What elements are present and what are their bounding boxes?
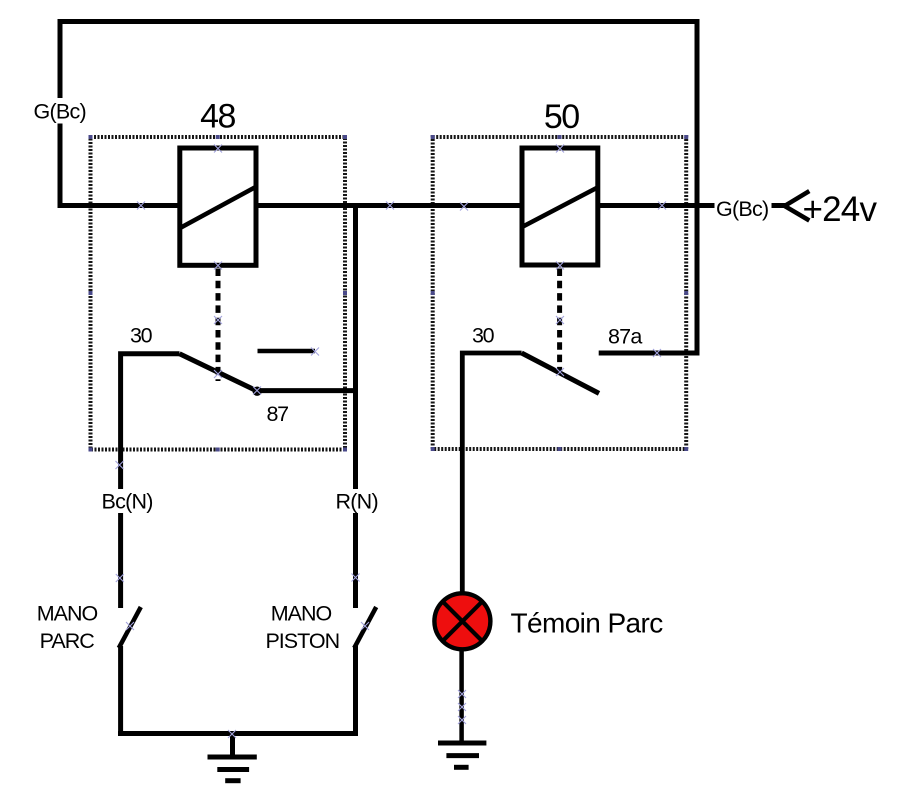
label G(Bc) left bbox=[30, 98, 88, 124]
svg-text:30: 30 bbox=[130, 324, 153, 348]
wire: lamp to ground bbox=[459, 650, 464, 743]
svg-text:R(N): R(N) bbox=[336, 490, 378, 514]
label G(Bc) right bbox=[715, 195, 772, 221]
svg-text:Témoin Parc: Témoin Parc bbox=[511, 608, 664, 639]
ground stub below bottom bus bbox=[230, 734, 235, 758]
svg-text:MANO: MANO bbox=[271, 602, 332, 626]
ground symbol (center) bbox=[208, 757, 257, 781]
wire: relay 50 terminal 87a to right drop bbox=[599, 351, 700, 356]
wire: MANO PISTON lower leg bbox=[353, 646, 358, 736]
svg-text:PISTON: PISTON bbox=[265, 629, 339, 653]
ground symbol (right, below lamp) bbox=[438, 743, 486, 767]
dashed armature link of relay 50 bbox=[557, 269, 562, 379]
relay 50 terminal 30 wire and drop to lamp bbox=[462, 353, 521, 594]
label Bc(N) bbox=[99, 489, 156, 514]
MANO PARC switch arm bbox=[119, 607, 141, 648]
wire: relay 48 terminal 87 to R(N) wire bbox=[257, 388, 358, 393]
svg-text:PARC: PARC bbox=[40, 629, 95, 653]
relay 48 terminal 30 wire and Bc(N) drop bbox=[121, 354, 180, 608]
label R(N) bbox=[331, 489, 379, 514]
relay 50 dotted enclosure bbox=[433, 137, 687, 449]
wire R(N): junction on bus down to MANO PISTON switch bbox=[353, 206, 358, 609]
relay 48 coil U1 bbox=[180, 148, 257, 265]
svg-text:G(Bc): G(Bc) bbox=[34, 100, 86, 124]
wire: main horizontal bus at relay coil level bbox=[58, 203, 786, 208]
relay 48 unused 87a contact stub bbox=[258, 349, 316, 354]
wire: MANO PARC lower leg bbox=[118, 646, 123, 736]
wire: left branch up, top bus, right drop to 87a bbox=[60, 22, 697, 356]
relay 50 coil U2 bbox=[522, 148, 598, 265]
MANO PISTON switch arm bbox=[354, 607, 376, 648]
svg-text:48: 48 bbox=[200, 98, 235, 136]
svg-text:+24v: +24v bbox=[803, 190, 878, 229]
svg-text:30: 30 bbox=[472, 324, 495, 348]
svg-text:G(Bc): G(Bc) bbox=[716, 197, 768, 221]
svg-text:50: 50 bbox=[544, 98, 579, 136]
dashed armature link of relay 48 bbox=[216, 269, 221, 382]
wire: bottom return bus bbox=[118, 731, 358, 736]
svg-text:MANO: MANO bbox=[37, 602, 98, 626]
selection anchor marks (editor artifacts) bbox=[116, 145, 667, 739]
relay 48 switch arm (closed to 87) bbox=[180, 354, 257, 391]
relay 48 dotted enclosure bbox=[91, 137, 346, 450]
+24v supply fork bbox=[785, 191, 810, 220]
relay 50 switch arm (open) bbox=[522, 353, 599, 393]
svg-text:87a: 87a bbox=[608, 325, 642, 349]
svg-text:87: 87 bbox=[267, 402, 289, 426]
lamp Témoin Parc bbox=[434, 593, 490, 649]
svg-text:Bc(N): Bc(N) bbox=[102, 490, 153, 514]
relay 48 armature contact dot bbox=[253, 387, 262, 396]
